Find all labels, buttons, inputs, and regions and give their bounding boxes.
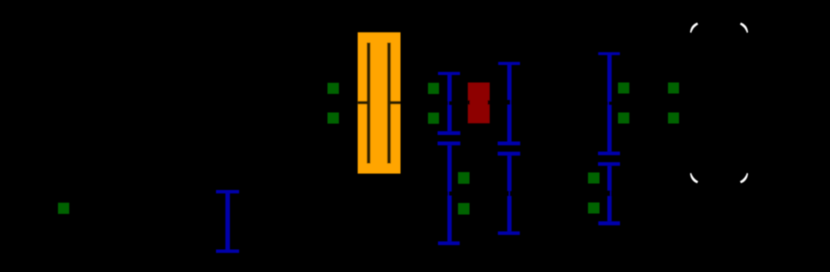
- capacitor C2 body (orange film capacitor): [358, 32, 401, 173]
- node C1 (green terminal pad, right of transformer, upper): [428, 83, 439, 94]
- node E2 (green terminal pad left of column 3, lower): [588, 203, 600, 214]
- capacitor C4 (blue electrolytic column 2): [498, 62, 521, 235]
- capacitor C2 left lead: [358, 101, 368, 104]
- capacitor C2 plate 2 (right vertical line): [387, 43, 390, 164]
- node F1 (green terminal pad right of column 3, upper): [618, 83, 629, 94]
- capacitor C1 (blue I-beam body, left): [216, 190, 239, 253]
- resistor R1 lead notch left: [468, 100, 470, 104]
- resistor R1 lead notch right: [488, 100, 490, 104]
- capacitor C2 plate 1 (left vertical line): [367, 43, 370, 164]
- tube V1 envelope highlight, bottom-right arc: [740, 173, 748, 183]
- tube V1 envelope highlight, top-right arc: [740, 23, 748, 33]
- node B2 (green terminal pad, left of transformer, lower): [328, 113, 339, 124]
- node D1 (green terminal pad below column 1, upper): [458, 172, 470, 184]
- tube V1 envelope highlight, bottom-left arc: [690, 173, 698, 183]
- tube V1 envelope highlight, top-left arc: [690, 23, 698, 33]
- node F2 (green terminal pad right of column 3, lower): [618, 113, 629, 124]
- node A (green terminal pad, far left): [58, 203, 69, 214]
- capacitor C2 right lead: [390, 101, 401, 104]
- node B1 (green terminal pad, left of transformer, upper): [328, 83, 339, 94]
- node G2 (green terminal pad at tube, lower): [668, 113, 679, 124]
- capacitor C3 (blue electrolytic column 1): [438, 72, 461, 245]
- node C2 (green terminal pad, right of transformer, lower): [428, 113, 439, 124]
- capacitor C5 (blue electrolytic column 3): [598, 52, 620, 225]
- resistor R1 body (dark red): [468, 83, 490, 124]
- node E1 (green terminal pad left of column 3, upper): [588, 173, 600, 184]
- node D2 (green terminal pad below column 1, lower): [458, 203, 470, 215]
- node G1 (green terminal pad at tube, upper): [668, 83, 679, 94]
